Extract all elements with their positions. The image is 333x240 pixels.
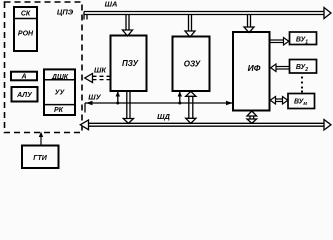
svg-text:РОН: РОН bbox=[18, 30, 34, 37]
svg-text:ШУ: ШУ bbox=[88, 93, 101, 102]
svg-text:ИФ: ИФ bbox=[248, 63, 261, 73]
svg-text:ШД: ШД bbox=[157, 112, 170, 121]
svg-text:ДШК: ДШК bbox=[51, 74, 69, 81]
svg-text:ГТИ: ГТИ bbox=[33, 155, 48, 162]
svg-text:СК: СК bbox=[21, 10, 31, 17]
svg-text:РК: РК bbox=[54, 107, 64, 114]
svg-text:УУ: УУ bbox=[55, 90, 66, 97]
svg-text:ША: ША bbox=[105, 0, 118, 8]
svg-text:ШК: ШК bbox=[94, 66, 107, 75]
svg-text:ВУ2: ВУ2 bbox=[296, 64, 308, 73]
svg-text:ВУм: ВУм bbox=[294, 99, 307, 108]
svg-text:А: А bbox=[20, 74, 26, 81]
svg-text:ОЗУ: ОЗУ bbox=[184, 60, 201, 69]
svg-text:АЛУ: АЛУ bbox=[16, 92, 33, 99]
svg-text:ПЗУ: ПЗУ bbox=[122, 59, 139, 68]
svg-text:ЦПЭ: ЦПЭ bbox=[57, 8, 74, 17]
